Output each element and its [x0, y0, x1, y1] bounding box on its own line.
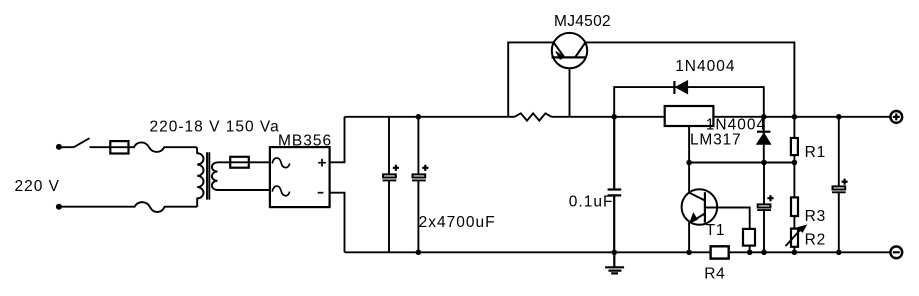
resistor R4 (series in 0V rail) — [711, 246, 729, 258]
node (collector/R1 top) — [792, 114, 798, 120]
capacitor C3 0.1uF — [608, 117, 622, 253]
svg-text:1N4004: 1N4004 — [675, 58, 735, 75]
svg-text:MJ4502: MJ4502 — [554, 13, 611, 30]
diode D2 1N4004 (vertical, points up) — [763, 117, 765, 163]
capacitor C5 (output) — [832, 117, 846, 253]
node (ADJ rail / R1 bottom) — [792, 160, 798, 166]
terminal (mains top) — [56, 144, 62, 150]
wire (bridge + output, up to + rail) — [330, 117, 345, 163]
wire (bridge − output, down to 0V rail) — [330, 193, 345, 253]
potentiometer R2 — [791, 229, 798, 247]
transformer TR1 primary winding — [197, 147, 204, 207]
wire (R1-R3-R2 chain) — [793, 117, 795, 253]
svg-text:LM317: LM317 — [690, 132, 741, 149]
wire (MJ4502 emitter loop) — [508, 42, 553, 116]
bridge AC mark bottom — [272, 186, 289, 196]
wire (mains bottom with squiggle) — [61, 202, 197, 212]
transistor MJ4502 — [552, 33, 587, 68]
resistor R1 — [791, 138, 798, 155]
terminal (+ output) — [890, 111, 902, 123]
bridge AC mark top — [272, 158, 289, 168]
node (D2 bottom / C4 top) — [761, 160, 767, 166]
wire (ADJ rail) — [689, 162, 794, 164]
svg-text:220 V: 220 V — [15, 178, 61, 195]
capacitor C1 4700uF — [383, 117, 397, 253]
svg-text:R3: R3 — [805, 208, 826, 225]
bridge - mark — [318, 192, 324, 194]
svg-text:R2: R2 — [805, 231, 826, 248]
rail (+ top, in two spans around ballast resistor) — [345, 116, 891, 118]
svg-text:R4: R4 — [704, 265, 725, 282]
diode D1 1N4004 (points left) — [673, 81, 675, 94]
svg-text:220-18 V 150 Va: 220-18 V 150 Va — [150, 118, 280, 135]
capacitor C2 4700uF — [412, 117, 426, 253]
regulator U1 LM317 — [665, 106, 714, 126]
node (C2 bottom) — [416, 250, 422, 256]
transformer TR1 secondary winding — [212, 162, 218, 190]
terminal (− output) — [890, 246, 902, 258]
node (T1 emitter) — [686, 250, 692, 256]
capacitor C4 (ADJ bypass) — [757, 163, 771, 253]
svg-text:1N4004: 1N4004 — [706, 117, 766, 134]
svg-text:0.1uF: 0.1uF — [569, 194, 614, 211]
node (D1 branch / LM317 input) — [611, 114, 617, 120]
node (C3 bottom / ground) — [612, 250, 618, 256]
node (R2 bottom) — [792, 250, 798, 256]
switch S1 — [74, 138, 90, 147]
terminal (mains bottom) — [56, 204, 62, 210]
wire (MJ4502 collector to output) — [585, 42, 794, 116]
resistor (ballast zigzag on + rail) — [515, 113, 552, 120]
resistor R3 — [791, 197, 798, 216]
wire (T1 collector) — [688, 163, 690, 193]
wire (MJ4502 base) — [569, 68, 571, 117]
node (base resistor bottom) — [747, 250, 753, 256]
node (D2 top) — [761, 114, 767, 120]
fuse F1 — [110, 141, 128, 153]
bridge rectifier MB356 body — [270, 147, 330, 207]
ground — [605, 252, 624, 273]
wire (secondary top) — [218, 161, 270, 163]
node (C2 top) — [416, 114, 422, 120]
wire (T1 base) — [705, 208, 750, 229]
resistor (T1 base, vertical) — [743, 229, 755, 246]
node (C5 top) — [836, 114, 842, 120]
bridge + mark — [318, 159, 326, 167]
transformer core — [207, 152, 209, 199]
wire (mains top with switch gap and squiggle) — [61, 142, 197, 152]
wire (base resistor to 0V) — [749, 246, 751, 253]
svg-text:T1: T1 — [706, 222, 726, 239]
svg-text:2x4700uF: 2x4700uF — [419, 214, 496, 231]
wire (LM317 ADJ pin) — [688, 126, 690, 163]
wire (T1 emitter) — [688, 221, 690, 252]
node (ADJ pin) — [686, 160, 692, 166]
svg-text:R1: R1 — [805, 144, 826, 161]
svg-text:MB356: MB356 — [278, 133, 332, 150]
wire (secondary bottom) — [218, 189, 270, 191]
transistor T1 — [682, 189, 718, 225]
fuse F2 — [230, 157, 249, 168]
wire (protection diode branch over LM317) — [614, 87, 764, 117]
rail (0 V bottom) — [345, 251, 891, 253]
node (C4 bottom) — [761, 250, 767, 256]
node (C5 bottom) — [836, 250, 842, 256]
